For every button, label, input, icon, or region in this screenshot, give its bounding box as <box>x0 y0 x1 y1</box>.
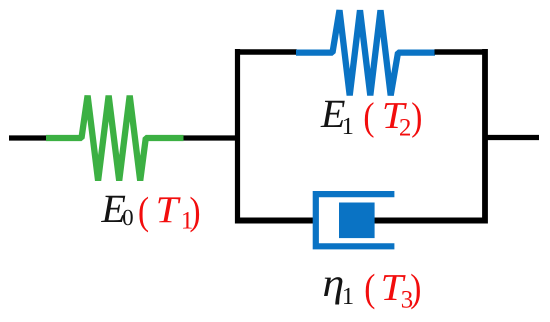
wire: right output lead <box>485 135 539 140</box>
label (T1): close paren <box>191 197 200 233</box>
label (T2): close paren <box>412 102 421 138</box>
label (T3): letter T <box>383 275 405 300</box>
label (T1): letter T <box>158 197 180 222</box>
label E1: subscript 1 <box>344 118 353 134</box>
label (T1): subscript 1 <box>183 212 192 229</box>
label E0: letter E <box>101 196 125 222</box>
label (T2): letter T <box>385 103 407 128</box>
wire: E0 to left junction node <box>184 135 240 140</box>
dashpot eta1 cylinder (blue) <box>316 194 395 246</box>
spring E0 (green) <box>46 96 184 181</box>
spring E1 (blue) <box>296 10 435 95</box>
wire: right vertical rail of parallel branch <box>482 49 488 224</box>
label (T2): open paren <box>365 102 374 138</box>
label eta1: subscript 1 <box>344 288 353 304</box>
label E1: letter E <box>321 101 345 127</box>
label E0: subscript 0 <box>123 210 133 226</box>
wire: bottom rail right segment (piston rod) <box>375 218 488 224</box>
label eta1: letter eta <box>324 277 342 304</box>
label (T3): subscript 3 <box>402 291 412 308</box>
wire: top rail left segment <box>235 49 297 54</box>
wire: bottom rail left segment <box>235 218 313 224</box>
label (T3): open paren <box>366 274 375 310</box>
label (T3): close paren <box>411 274 420 310</box>
label (T2): subscript 2 <box>400 119 410 136</box>
label (T1): open paren <box>139 197 148 233</box>
dashpot eta1 piston (blue) <box>339 203 375 239</box>
wire: left vertical rail of parallel branch <box>235 49 240 224</box>
wire: left input lead <box>9 135 47 140</box>
wire: top rail right segment <box>435 49 488 54</box>
